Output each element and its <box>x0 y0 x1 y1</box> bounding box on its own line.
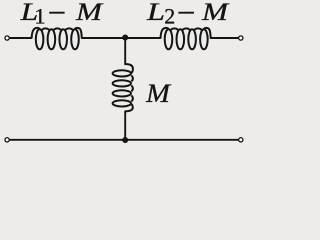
svg-text:1: 1 <box>34 4 46 29</box>
terminal top-right <box>239 36 243 40</box>
inductor L1-M <box>32 28 82 49</box>
wire top-middle-left (coil1 to center node) <box>82 37 125 39</box>
terminal top-left <box>5 36 9 40</box>
label L1 - M <box>19 0 103 29</box>
node A (top center junction) <box>122 35 128 41</box>
wire bottom <box>10 139 238 141</box>
wire top-left <box>10 37 32 39</box>
svg-text:M: M <box>145 79 171 108</box>
terminal bottom-left <box>5 138 9 142</box>
wire vertical upper (node A to coil M) <box>124 38 126 64</box>
wire vertical lower (coil M to node B) <box>124 111 126 140</box>
wire top-right <box>211 37 239 39</box>
svg-text:2: 2 <box>164 4 175 29</box>
node B (bottom center junction) <box>122 137 128 143</box>
wire top-middle-right (center node to coil2) <box>125 37 160 39</box>
svg-text:L: L <box>146 0 165 26</box>
inductor L2-M <box>161 28 211 49</box>
label L2 - M <box>146 0 230 29</box>
svg-text:M: M <box>75 0 104 26</box>
inductor M (vertical) <box>113 64 133 111</box>
terminal bottom-right <box>239 138 243 142</box>
svg-text:M: M <box>201 0 230 26</box>
